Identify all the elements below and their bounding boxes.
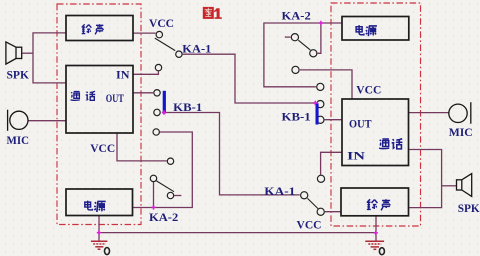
svg-text:KB-1: KB-1: [282, 110, 311, 124]
switch KA-2 right: blade: [298, 40, 310, 50]
contact: right KA-2 closed: [310, 50, 317, 57]
wire: right VCC contact to talk box top: [300, 70, 352, 99]
contact: right IN: [317, 175, 324, 182]
junction: left ground tap: [97, 230, 101, 234]
wire: right IN pin to contact: [321, 152, 342, 175]
switch KA-1 left: output contact: [176, 51, 182, 57]
relay bar KB-1 left (closed): [163, 91, 166, 114]
right unit dashed enclosure: [331, 3, 421, 226]
block: left power 电源: [66, 189, 133, 216]
wire: right bell box to ground: [375, 216, 377, 241]
wire: left OUT pin to KB-1: [133, 92, 153, 94]
wire: right KA-2 floating stub: [285, 36, 291, 38]
wire: ground bus: [99, 232, 376, 234]
junction: right ground tap: [373, 231, 378, 235]
svg-text:VCC: VCC: [90, 141, 115, 155]
text 通话 left talk: [71, 91, 96, 100]
contact: left KA-2 VCC side: [167, 158, 173, 164]
switch KA-1 left: VCC contact: [156, 31, 162, 37]
wire: left KA-2 floating stub: [174, 195, 181, 197]
svg-text:IN: IN: [347, 150, 366, 162]
contact: left KB-1 lower: [154, 109, 160, 115]
speaker SPK right: [457, 180, 462, 190]
block: left bell 铃声: [66, 16, 133, 41]
wire: right power box feed: [264, 23, 342, 87]
contact: left IN: [155, 64, 161, 70]
block: left talk 通话: [66, 66, 133, 134]
svg-text:MIC: MIC: [449, 125, 473, 139]
contact: right KA-2 floating: [291, 34, 298, 41]
block: right bell 铃声: [341, 188, 409, 216]
contact: left KB-1 upper: [154, 90, 160, 96]
svg-text:SPK: SPK: [7, 67, 30, 81]
junction: right KA-2 power tap: [319, 21, 323, 25]
label 0 right ground: [379, 248, 384, 255]
block: right talk 通话: [342, 99, 409, 166]
junction: right KB-1 input: [313, 101, 317, 105]
svg-text:VCC: VCC: [297, 217, 322, 231]
relay bar KB-1 right (closed): [316, 103, 319, 124]
contact: right VCC feed: [292, 66, 299, 73]
wire: left KA-2 common drop: [153, 182, 155, 208]
contact: left KA-2 throw: [167, 192, 173, 198]
contact: right KB-1 upper: [317, 101, 324, 108]
wire: right OUT pin to KB-1: [325, 119, 342, 121]
text 电源 right power: [356, 25, 377, 36]
block: right power 电源: [342, 17, 409, 41]
ground: left earth symbol: [91, 240, 108, 242]
microphone MIC left: [10, 111, 28, 129]
svg-text:VCC: VCC: [149, 16, 174, 30]
wire: left bell to SPK net: [33, 33, 66, 83]
ground: right earth symbol: [365, 240, 384, 242]
text 电源 left power: [85, 201, 106, 212]
contact: left KA-2 common: [150, 175, 156, 181]
svg-text:KA-2: KA-2: [282, 8, 311, 22]
wire: left lower contact to power rail: [133, 132, 193, 208]
switch KA-1 right: bell contact: [317, 208, 324, 215]
wire: right talk to SPK net: [409, 150, 442, 208]
contact: right KB-1 lower: [317, 116, 324, 123]
wire: right MIC wire: [409, 112, 449, 114]
junction: left KB-1 output: [162, 110, 166, 114]
svg-text:KA-2: KA-2: [149, 210, 178, 224]
contact: right power net: [317, 83, 324, 90]
svg-text:IN: IN: [116, 69, 130, 81]
svg-text:KA-1: KA-1: [264, 184, 295, 198]
svg-text:OUT: OUT: [106, 93, 124, 105]
microphone MIC right: [449, 104, 467, 122]
left unit dashed enclosure: [57, 4, 141, 225]
wire: left power box to ground: [98, 216, 100, 241]
wire: left bell right pin to KA-1 contact: [133, 32, 156, 34]
wire: left IN pin to contact: [133, 71, 158, 74]
svg-text:SPK: SPK: [458, 201, 480, 215]
wire: right KA-2 closed contact riser: [318, 23, 321, 53]
switch KA-1 right: input contact: [301, 192, 308, 199]
wire: left speaker stub: [22, 52, 34, 54]
speaker SPK left: [16, 47, 22, 58]
text 铃声 left bell: [82, 24, 104, 34]
junction: left KA-2 power tap: [151, 205, 155, 209]
contact: left lower to power: [153, 129, 159, 135]
switch KA-1 right: blade: [308, 198, 319, 208]
text 铃声 right bell: [367, 199, 390, 210]
switch KA-2 left: blade: [156, 181, 174, 192]
wire: left KA-1 to right KB-1 common: [183, 54, 315, 103]
svg-text:KA-1: KA-1: [182, 42, 211, 56]
label 0 left ground: [105, 248, 110, 255]
svg-text:OUT: OUT: [349, 118, 372, 130]
wire: right KA-1 to bell box: [325, 211, 341, 213]
svg-text:KB-1: KB-1: [173, 100, 202, 114]
svg-text:VCC: VCC: [356, 83, 381, 97]
wire: left VCC pin down to KA-2 contact: [117, 133, 167, 161]
wire: left KB-1 closed contact to right KA-1 switch: [164, 113, 300, 195]
svg-text:MIC: MIC: [7, 133, 30, 147]
text 通话 right talk: [379, 139, 402, 149]
switch KA-1 left: blade: [155, 38, 175, 51]
title 图1: [203, 7, 222, 19]
wire: right speaker stub: [442, 185, 457, 187]
wire: left MIC to talk box: [28, 120, 66, 122]
